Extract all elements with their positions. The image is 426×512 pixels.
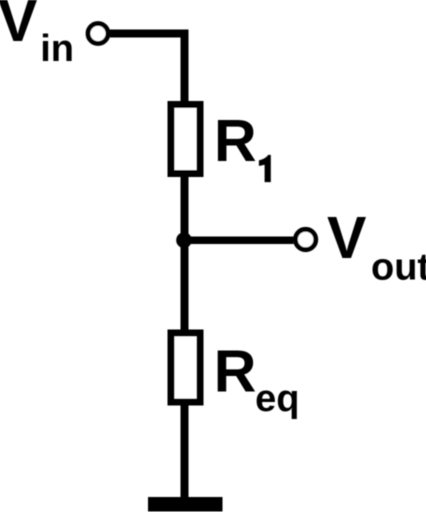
wire top: Vin terminal to R1 (110, 34, 185, 102)
resistor R1 (171, 105, 200, 174)
wire: Req to ground (181, 406, 189, 498)
node junction dot (176, 232, 192, 248)
wire: node to Vout terminal (184, 236, 293, 244)
svg-text:V: V (0, 0, 37, 54)
svg-text:out: out (371, 247, 426, 289)
node label Vin (0, 0, 74, 70)
svg-text:R: R (214, 339, 257, 405)
wire: R1 to Req through node (181, 177, 189, 330)
node label Vout (327, 205, 426, 289)
resistor Req label (214, 339, 300, 421)
svg-text:in: in (40, 28, 74, 70)
ground (148, 497, 223, 512)
terminal Vout (295, 229, 315, 249)
svg-text:R: R (214, 108, 257, 174)
resistor R1 label (214, 108, 271, 182)
terminal Vin (88, 24, 108, 44)
svg-text:eq: eq (255, 378, 299, 420)
svg-text:V: V (327, 205, 366, 271)
resistor Req (171, 333, 200, 402)
